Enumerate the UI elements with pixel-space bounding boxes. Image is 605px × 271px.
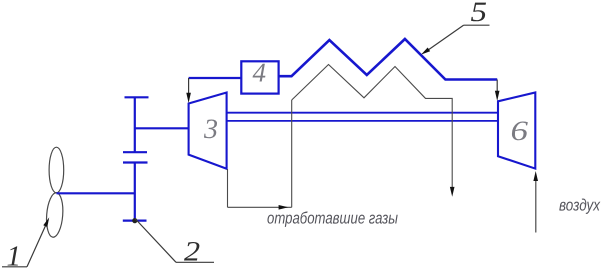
shaft double line between 3 and 6 [227, 113, 498, 121]
wire: box 4 to compressor 3 inlet [189, 77, 242, 79]
wire: gearbox to compressor 3 shaft [135, 127, 189, 129]
wire: propeller shaft to gearbox [57, 192, 135, 194]
wire: drop into 6 with arrow [496, 80, 498, 93]
arrow into 6 [495, 91, 500, 101]
svg-text:5: 5 [471, 0, 488, 28]
svg-text:4: 4 [253, 58, 267, 88]
svg-text:3: 3 [203, 114, 218, 145]
arrow into 3 [186, 93, 191, 103]
svg-text:6: 6 [511, 116, 529, 147]
turbine block 6 (trapezoid) [498, 93, 535, 169]
combustion chamber box 4 [241, 61, 278, 93]
compressor block 3 (trapezoid) [189, 93, 227, 169]
wire: exhaust bottom horizontal [228, 206, 292, 208]
heat exchanger zigzag 5 (blue) [279, 39, 498, 80]
gearbox (item 2) [123, 97, 149, 220]
arrow exhaust to riser (right) [279, 205, 289, 210]
label 1 with leader [2, 217, 49, 271]
node: junction dot on gearbox for leader 2 [132, 218, 137, 223]
wire: drop into 3 with arrow [188, 78, 190, 94]
label 5 with leader [421, 0, 490, 55]
label 2 with leader [135, 219, 214, 268]
svg-text:отработавшие газы: отработавшие газы [267, 210, 398, 228]
air inlet arrow (up into 6) [535, 181, 537, 233]
exhaust gas inner zigzag pipe [292, 65, 453, 189]
propeller P (item 1), two blade ellipses [45, 147, 64, 238]
wire: drop from 3 outlet [227, 169, 229, 207]
arrow exhaust out (down) [450, 187, 455, 197]
wire: exhaust riser [291, 100, 293, 207]
svg-text:воздух: воздух [559, 197, 601, 215]
